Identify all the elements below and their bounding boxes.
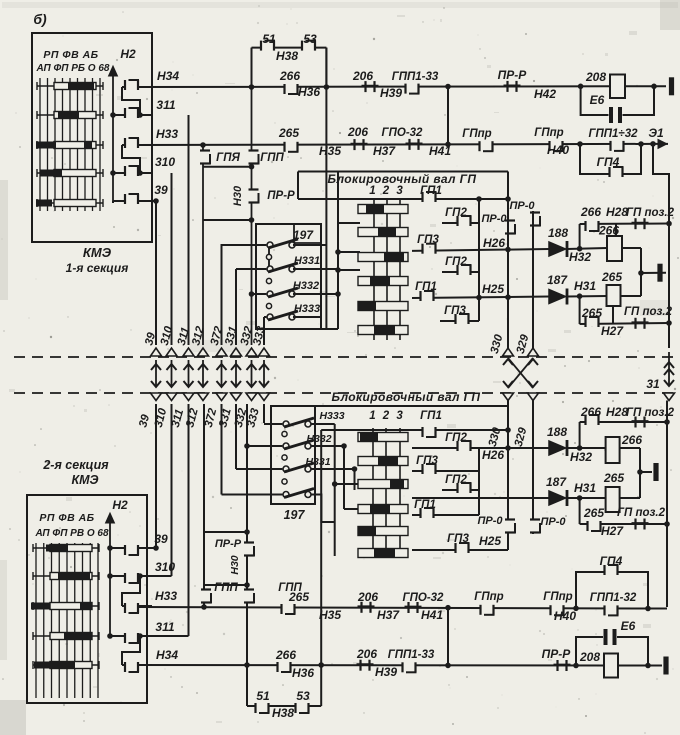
svg-text:187: 187 <box>547 273 568 287</box>
junction 332/220 <box>249 217 255 223</box>
wire switch1 out <box>293 244 326 246</box>
svg-text:АП ФП РБ О 68: АП ФП РБ О 68 <box>36 63 110 74</box>
resistor 266 <box>598 224 622 262</box>
wire Н25 row (s2) <box>412 549 508 551</box>
contact ГП1 top <box>423 192 437 202</box>
svg-text:Н40: Н40 <box>554 609 576 623</box>
label Н34 (s2) <box>156 648 178 662</box>
wire bus 354 (s2) <box>354 469 356 490</box>
svg-text:АП ФП РВ О 68: АП ФП РВ О 68 <box>34 528 109 539</box>
resistor 208 (s2) <box>579 650 618 678</box>
contact ГПП1-32 (s2) <box>590 592 637 615</box>
svg-text:Н34: Н34 <box>156 648 178 662</box>
switch box 197 (s2) <box>271 406 315 504</box>
svg-text:ГПО-32: ГПО-32 <box>382 127 424 139</box>
svg-text:КМЭ: КМЭ <box>83 245 112 260</box>
label ГП1 top <box>420 185 442 197</box>
contact КМЭ 311 <box>113 108 152 118</box>
section divider dashed line 2 <box>14 392 676 394</box>
contact ГПП no.2 (s2) <box>244 582 303 604</box>
cam shaft verticals <box>374 198 400 340</box>
wire to ground <box>641 272 666 274</box>
label 310 <box>155 155 175 169</box>
contact ГП2 a <box>445 207 471 226</box>
resistor 208 <box>585 70 625 98</box>
wire 265/Н27 row <box>580 323 669 324</box>
wire 311 vertical (s2) <box>188 404 190 636</box>
svg-text:Н32: Н32 <box>570 450 592 464</box>
contact КМЭ Н33 <box>122 138 152 148</box>
link Н34-311 <box>122 87 140 115</box>
junction Н2/310 (s2) <box>107 573 113 579</box>
svg-text:208: 208 <box>579 650 600 664</box>
svg-text:ГП1: ГП1 <box>420 410 442 422</box>
contact ПР-0 no.1 (s2) <box>477 515 515 534</box>
label 310 upper rotated <box>159 325 176 347</box>
svg-text:ГП1: ГП1 <box>415 281 437 293</box>
contact ГП3 e (s2) <box>447 533 469 553</box>
svg-text:ГПО-32: ГПО-32 <box>403 592 445 604</box>
wire right bus (s2) <box>666 401 668 608</box>
wire Н34 row (s2) <box>137 664 610 667</box>
svg-text:ГПпр: ГПпр <box>534 127 563 139</box>
svg-text:ГП поз.2: ГП поз.2 <box>624 306 673 318</box>
KME controller box (section 1) <box>32 33 152 242</box>
resistor 265 <box>601 270 622 306</box>
cam bar 4 <box>358 277 408 286</box>
resistor 266 (s2) <box>606 433 643 463</box>
wire 330 vertical (s2) <box>507 400 509 550</box>
svg-text:Н28: Н28 <box>606 205 628 219</box>
svg-text:ГПП: ГПП <box>260 152 284 164</box>
switch linkage circles (s2) <box>282 431 287 484</box>
svg-text:Н41: Н41 <box>421 608 443 622</box>
wire 333 vertical <box>263 317 265 345</box>
KME1 header text row 1 <box>43 49 98 61</box>
blocking shaft box <box>298 172 508 200</box>
contact 206 Н39 (s2) <box>356 647 397 679</box>
wire R266 right <box>622 247 641 249</box>
svg-text:Н38: Н38 <box>272 706 294 720</box>
wire 331 vertical (s2) <box>235 404 237 469</box>
link Н33-310 (s2) <box>122 576 140 606</box>
svg-text:Н33: Н33 <box>155 589 177 603</box>
wire 51/53 branch left <box>251 48 253 87</box>
svg-text:Н30: Н30 <box>229 555 241 574</box>
contact ПР-0 no.2 (s2) <box>530 516 566 534</box>
svg-text:ГПП1-33: ГПП1-33 <box>392 71 439 83</box>
svg-text:265: 265 <box>603 471 624 485</box>
wire 331 vertical <box>235 269 237 345</box>
junction Н33/ГП4 left <box>577 141 583 147</box>
wire Н26 row <box>412 249 549 251</box>
resistor 265 (s2) <box>606 487 620 512</box>
cam bar 6 (s2) <box>358 549 408 558</box>
cam bar 3 <box>358 253 408 262</box>
label 311 <box>156 98 175 112</box>
caption section 2 <box>42 458 109 487</box>
junction 310 link (s2) <box>137 573 143 579</box>
contact ГП1 d (s2) <box>414 499 436 518</box>
wire Н31 out (s2) <box>567 497 606 499</box>
label 311 lower rotated <box>170 408 186 429</box>
wire 333 vertical (s2) <box>263 404 265 423</box>
svg-text:Н34: Н34 <box>157 69 179 83</box>
contact 266 Н36 <box>279 69 320 99</box>
svg-text:Н26: Н26 <box>483 236 505 250</box>
label Н31 (s2) <box>574 481 596 495</box>
wire 312 vertical <box>202 145 204 345</box>
wire 39 vertical (s2) <box>155 404 157 548</box>
junction 312/Н33 (s2) <box>201 604 207 610</box>
svg-text:РП ФВ АБ: РП ФВ АБ <box>43 49 98 61</box>
svg-text:ГП2: ГП2 <box>445 474 467 486</box>
label Н38 (s2) <box>272 706 294 720</box>
svg-text:ГП3: ГП3 <box>444 305 466 317</box>
wire switch2 out <box>293 268 338 270</box>
junction riser/Н33 (s2) <box>445 605 451 611</box>
wire 266/Н28 row (s2) <box>580 421 667 423</box>
cam bar 2 <box>358 228 408 237</box>
wire ГП4 branch (s2) <box>576 572 648 609</box>
svg-text:265: 265 <box>278 126 299 140</box>
contact ГП поз.2 top <box>632 218 649 229</box>
KME2 header text row 1 <box>39 512 94 524</box>
wire 39 vertical <box>155 201 157 345</box>
KME1 cam program bars <box>36 82 103 207</box>
inter-section connector 312 <box>198 348 209 401</box>
wire ГП2 row c (s2) <box>442 489 479 491</box>
inter-section connector 333 <box>259 348 270 401</box>
wire ГП3 row e <box>440 320 479 322</box>
junction 641/ground <box>638 270 644 276</box>
svg-text:266: 266 <box>279 69 300 83</box>
svg-text:1 2 3: 1 2 3 <box>369 185 405 197</box>
switch 197-4 Н333 <box>264 303 320 320</box>
stub R265 to row <box>612 306 614 324</box>
wire Н34 row <box>137 85 610 88</box>
contact 266 Н36 (s2) <box>275 648 314 680</box>
wire R265 right (s2) <box>620 497 640 499</box>
switch 197-3 Н332 <box>252 280 320 297</box>
switch box 197 <box>256 224 321 329</box>
wire ГП4 branch <box>580 144 641 174</box>
wire 641 vertical <box>640 248 642 296</box>
svg-text:ГП2: ГП2 <box>445 256 467 268</box>
section divider dashed line 1 <box>14 356 676 358</box>
label Н33 <box>156 127 178 141</box>
svg-text:Н35: Н35 <box>319 144 341 158</box>
wire E6 loop <box>581 86 654 115</box>
contact 265-row <box>586 317 600 327</box>
svg-text:Н40: Н40 <box>547 143 569 157</box>
wire 332 vertical (s2) <box>246 404 248 706</box>
figure label б) <box>33 11 47 27</box>
contact ГПпр Н40 (s2) <box>543 591 576 623</box>
contact 266-row <box>586 221 600 231</box>
contact ГПО-32 Н41 (s2) <box>403 592 445 622</box>
wire shaft top row <box>327 198 508 200</box>
wire 372 vertical (s2) <box>221 404 223 495</box>
inter-section connector 311 <box>183 348 194 401</box>
label Н31 <box>574 279 596 293</box>
ground (top right) <box>669 77 674 95</box>
junction Н2/311 (s2) <box>107 633 113 639</box>
contact ПР-Р Н30 <box>232 185 295 206</box>
wire right bus mid <box>668 224 670 348</box>
svg-text:311: 311 <box>155 620 174 634</box>
svg-text:187: 187 <box>546 475 567 489</box>
svg-text:Н38: Н38 <box>276 49 298 63</box>
contact ГП4 (s2) <box>600 554 623 575</box>
svg-text:ПР-Р: ПР-Р <box>498 68 528 82</box>
KME2 cam program bars <box>31 544 99 669</box>
contact 206 Н37 (s2) <box>357 590 400 622</box>
label 330 rotated <box>489 333 506 355</box>
svg-text:ГПпр: ГПпр <box>462 128 491 140</box>
svg-text:Н39: Н39 <box>380 86 402 100</box>
svg-text:31: 31 <box>646 377 660 391</box>
junction branch right (s2) <box>318 662 324 668</box>
svg-text:ПР-Р: ПР-Р <box>542 647 572 661</box>
contact 51 (s2) <box>256 689 270 713</box>
svg-text:Н36: Н36 <box>292 666 314 680</box>
contact ГП2 c <box>445 256 471 275</box>
wire 311 vertical <box>188 115 190 345</box>
label 333 upper rotated <box>251 325 268 347</box>
contact 206 Н39 <box>352 69 402 100</box>
junction Н26/508 (s2) <box>505 445 511 451</box>
svg-text:Блокировочный вал ГП: Блокировочный вал ГП <box>328 172 477 186</box>
label ГП1 top (s2) <box>420 410 442 422</box>
contact ГП3 b <box>417 234 439 254</box>
labels 265 row <box>581 306 673 320</box>
label 329 rotated (s2) <box>513 426 530 448</box>
svg-text:ГП3: ГП3 <box>447 533 469 545</box>
switch 197-2 Н331 <box>236 255 320 272</box>
label 31 <box>646 377 660 391</box>
KME2 cam grid vertical lines <box>36 543 98 698</box>
wire Э1 arrow <box>648 126 668 148</box>
label Н34 <box>157 69 179 83</box>
svg-text:ГП поз.2: ГП поз.2 <box>617 507 666 519</box>
label 372 upper rotated <box>209 325 226 347</box>
junction on Н2 at 310 <box>110 170 116 176</box>
riser Н31 to bottom row (s2) <box>579 498 581 524</box>
svg-text:ГПпр: ГПпр <box>543 591 572 603</box>
KME1 cam grid vertical lines <box>40 78 100 211</box>
wire R266 right (s2) <box>620 447 640 449</box>
stub bus338 to shaft a <box>338 222 360 224</box>
label 311 (s2) <box>155 620 174 634</box>
svg-text:53: 53 <box>303 32 317 46</box>
wire 51/53 branch right <box>325 48 327 87</box>
svg-text:2-я секция: 2-я секция <box>42 458 109 472</box>
label Н38 <box>276 49 298 63</box>
svg-text:51: 51 <box>262 32 276 46</box>
wire 51/53 branch top <box>252 47 327 49</box>
junction Н34/branch left <box>249 84 255 90</box>
label 329 rotated <box>515 333 532 355</box>
junction row2/bus (s2) <box>664 521 670 527</box>
svg-text:Н25: Н25 <box>482 282 504 296</box>
labels 1 2 3 <box>369 185 405 197</box>
wire ГП2 row a <box>442 222 479 224</box>
contact 53 <box>302 32 317 51</box>
contact ГПЯ <box>200 151 240 165</box>
svg-text:Н28: Н28 <box>606 405 628 419</box>
wire 640 vertical (s2) <box>639 448 641 498</box>
junction 265row/bus <box>666 320 672 326</box>
label 372 lower rotated <box>203 407 220 429</box>
contact ГПпр Н40 <box>534 127 569 157</box>
svg-text:ГП3: ГП3 <box>417 234 439 246</box>
label Н32 <box>569 250 591 264</box>
svg-text:Н39: Н39 <box>375 665 397 679</box>
svg-text:Н27: Н27 <box>601 324 624 338</box>
contact 265-row (s2) <box>588 521 602 531</box>
contact ГПП1-33 (s2) <box>388 649 435 672</box>
svg-text:Н33: Н33 <box>156 127 178 141</box>
junction 39 wire (s2) <box>153 545 159 551</box>
junction branch left (s2) <box>244 662 250 668</box>
svg-text:ПР-0: ПР-0 <box>509 200 535 212</box>
labels 1 2 3 (s2) <box>369 410 405 422</box>
wire Н33 row <box>137 144 653 145</box>
wire Н25 row <box>412 297 549 299</box>
label 331 upper rotated <box>223 325 240 347</box>
contact 51 <box>261 32 276 51</box>
contact 53 (s2) <box>296 689 310 713</box>
KME2 header text row 2 <box>34 528 109 539</box>
svg-text:Н332: Н332 <box>293 280 319 292</box>
link Н34-311 (s2) <box>122 636 140 665</box>
wire 329 vertical (s2) <box>532 400 534 534</box>
cam bar 5 (s2) <box>358 527 408 536</box>
junction 332/switch3 <box>249 291 255 297</box>
labels 265 row (s2) <box>583 506 666 520</box>
riser rows (s2) <box>447 608 449 665</box>
contact 266-row (s2) <box>586 415 600 425</box>
contact ГП1 d <box>415 281 437 301</box>
cam bar 2 (s2) <box>358 457 408 466</box>
svg-text:Н37: Н37 <box>377 608 400 622</box>
label 333 lower rotated <box>245 407 262 429</box>
junction 311 link <box>137 112 143 118</box>
stub bus334 shaft (s2) <box>332 481 358 487</box>
contact КМЭ 310 <box>113 166 152 176</box>
wire 51/53 branch (s2) <box>247 665 321 706</box>
label 312 upper rotated <box>190 325 207 347</box>
svg-text:Н31: Н31 <box>574 279 596 293</box>
cam bar 4 (s2) <box>358 505 408 514</box>
label Н25 <box>482 282 504 296</box>
contact КМЭ Н34 <box>122 80 152 90</box>
wire 372 vertical <box>221 244 223 345</box>
node Н2 label (section 2) <box>112 498 128 512</box>
junction Н26/508 <box>505 247 511 253</box>
ground (resistor block) <box>657 264 662 282</box>
junction Н33/Э1 <box>650 141 656 147</box>
wire 266/Н28 row <box>580 223 669 226</box>
diode 187 (s2) <box>546 475 567 506</box>
contact ГП1 (s2) <box>423 427 437 437</box>
wire 479 vertical (s2) <box>478 448 480 515</box>
junction 208 left (s2) <box>573 663 579 669</box>
label 39 <box>154 183 168 197</box>
svg-text:266: 266 <box>621 433 642 447</box>
switch 197-4 (s2) <box>222 489 315 498</box>
svg-text:ПР-Р: ПР-Р <box>215 538 242 550</box>
contact ГП поз.2 bottom <box>632 318 649 329</box>
wire ГП1 row (s2) <box>412 514 479 516</box>
svg-text:Н333: Н333 <box>319 410 344 422</box>
svg-text:Н26: Н26 <box>482 448 504 462</box>
capacitor Е6 (top) <box>590 93 623 123</box>
label Н27 <box>601 324 624 338</box>
junction 640/ground (s2) <box>637 469 643 475</box>
svg-text:206: 206 <box>356 647 377 661</box>
junction Н34/branch right <box>324 84 330 90</box>
junction 310 link <box>137 170 143 176</box>
contact ГП3 b (s2) <box>416 455 438 474</box>
label 39 lower rotated <box>137 413 152 429</box>
svg-text:197: 197 <box>284 508 306 522</box>
wire to right bus (s2) <box>648 608 667 610</box>
stub bus338 to shaft c <box>335 267 360 273</box>
contact КМЭ 39 <box>113 194 159 204</box>
wire switch2 out (s2) <box>311 443 347 449</box>
wire bus 344 (s2) <box>343 446 345 509</box>
stub bus344 shaft (s2) <box>344 508 358 510</box>
wire right bus upper <box>653 144 669 226</box>
labels 266 Н28 row (s2) <box>580 405 675 419</box>
junction Н25/479 <box>476 295 482 301</box>
svg-text:ГПЯ: ГПЯ <box>216 152 240 164</box>
label 197 (s2) <box>284 508 306 522</box>
wire E6 loop (s2) <box>576 637 648 666</box>
cam bar 3 (s2) <box>358 480 408 489</box>
inter-section cross 330/329 <box>503 348 539 401</box>
svg-text:Блокировочный вал ГП: Блокировочный вал ГП <box>332 390 481 404</box>
svg-text:Э1: Э1 <box>648 126 664 140</box>
svg-text:206: 206 <box>352 69 373 83</box>
label 312 lower rotated <box>184 407 201 429</box>
label 265 (s2) <box>603 471 624 485</box>
switch 197-2 Н332 (s2) <box>247 433 332 449</box>
svg-text:51: 51 <box>256 689 270 703</box>
wire switch1 out (s2) <box>311 423 335 425</box>
svg-text:Н25: Н25 <box>479 534 501 548</box>
wire switch4 out <box>293 317 338 329</box>
inter-section connector 372 <box>216 348 227 401</box>
wire Н31 row (s2) <box>412 497 549 499</box>
contact ГПП1-33 <box>392 71 439 94</box>
wire bus 338 <box>337 172 339 329</box>
junction 332/switch (s2) <box>244 443 250 449</box>
svg-text:Е6: Е6 <box>621 619 636 633</box>
junction Н25/508 <box>505 294 511 300</box>
capacitor Е6 (s2) <box>603 619 636 645</box>
wire 312 vertical (s2) <box>203 404 205 607</box>
contact ПР-0 no.1 <box>481 213 515 235</box>
svg-text:ГПП1-33: ГПП1-33 <box>388 649 435 661</box>
wire Н33 row (s2) <box>137 607 648 609</box>
label 311 upper rotated <box>176 326 192 347</box>
svg-text:Н27: Н27 <box>601 524 624 538</box>
wire Н2 bus (section 1) <box>109 66 118 203</box>
svg-text:Н30: Н30 <box>232 185 244 206</box>
